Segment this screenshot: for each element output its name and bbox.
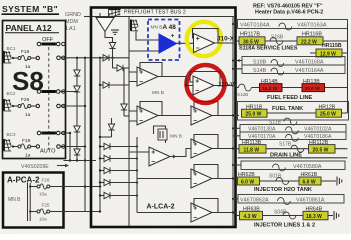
label V46S0209E (21, 164, 69, 170)
wire injector tank row (236, 180, 336, 182)
wire W1 stub (236, 23, 238, 25)
node dot R4 (232, 147, 234, 149)
highlight red circle (187, 65, 225, 103)
op-amp R5 (191, 169, 212, 188)
diode D5 down mid column (99, 118, 115, 138)
cable run W2 (242, 57, 345, 67)
op-amp R3 (191, 106, 212, 125)
wire J10-V output (214, 85, 236, 87)
heater value HR14B alarm (260, 84, 283, 93)
node dot (185, 84, 187, 86)
note REF title (253, 4, 323, 16)
wire R6 output (212, 212, 236, 214)
fuse F19 (12, 138, 40, 159)
riser wire x85 (84, 58, 86, 212)
feedback loop J10-X (193, 29, 219, 44)
fuse F16 (12, 49, 40, 70)
node dot (185, 42, 187, 44)
wire fuel feed row (236, 87, 348, 89)
wire lower input to A48 (129, 50, 159, 52)
switch S8 pole 3 (37, 131, 60, 135)
ground U1 (111, 30, 119, 34)
feedback loop J10-V (190, 72, 220, 86)
wire W2 stub (236, 59, 242, 61)
diode branch inner column (121, 68, 129, 116)
junction wire row below panel (64, 160, 97, 162)
op-amp J10-X driver (194, 34, 215, 53)
wire injector lines row (236, 215, 333, 217)
node dot R3 (232, 114, 234, 116)
diode on riser x77 second (74, 86, 80, 92)
heater value HR13B alarm (302, 84, 325, 93)
diode D3 (113, 58, 130, 71)
op-amp L2 (137, 106, 158, 125)
diode D2 on bus row (103, 55, 109, 61)
slack loop S17B (291, 145, 304, 152)
slack loop S11B (284, 118, 297, 125)
cable run W6 (241, 161, 345, 171)
op-amp L3 (149, 147, 175, 166)
feedback loop R6 (194, 199, 218, 213)
wire fuel tank row (267, 112, 348, 114)
op-amp L1 (137, 67, 158, 86)
wire out pole 3 (60, 132, 70, 134)
heater value HR113B (239, 145, 266, 154)
wire R3 input (159, 115, 191, 117)
contact and wire out row F19 (57, 145, 85, 149)
switch S8 pole 2 (37, 90, 60, 94)
heater value HR64B (303, 211, 328, 220)
feedback loop L1 (140, 63, 162, 77)
feedback loop R3 (194, 102, 218, 116)
feedback loop R5 (194, 165, 218, 179)
slack loop S01B (276, 178, 289, 185)
label PANEL A12 (5, 23, 59, 33)
terminal circles panel edge (62, 42, 65, 148)
heater value HR117B (239, 37, 265, 46)
cable run W4 (240, 125, 346, 134)
diode D6 row (99, 143, 138, 149)
diode D1 down (109, 43, 115, 49)
node dot feed lower (99, 210, 101, 212)
cable run W7 (238, 195, 344, 205)
wire L1 output to J10-V (158, 77, 193, 86)
ground injector tank (337, 177, 342, 186)
wire R3 output (212, 115, 239, 117)
bus line output column (232, 17, 234, 227)
buffer triangle A48 (159, 34, 177, 53)
heater value HR12B (316, 109, 342, 118)
heater value HR116B (297, 37, 323, 46)
highlight yellow circle (187, 22, 221, 56)
wire L3 output to R4 (175, 149, 191, 157)
comb terminal top (109, 9, 121, 17)
module box A-PCA-2 (3, 173, 64, 228)
diode D10 row (99, 192, 138, 198)
dashed module A48 (148, 20, 180, 61)
module box PREFLIGHT TEST BUS 2 (91, 8, 236, 228)
diode on riser x77 lower (74, 149, 80, 155)
heater value HR115B (316, 49, 342, 58)
wire comb to A48 (136, 32, 159, 41)
right bus vertical (347, 24, 349, 113)
switch S8 pole 1 (37, 42, 60, 46)
fuse F28 (29, 178, 63, 197)
wire R5 output (212, 178, 236, 180)
node dot R6 (232, 211, 234, 213)
wire D1 to node row (112, 49, 114, 58)
divider line inner left (128, 17, 130, 227)
transistor Q1 (154, 126, 168, 143)
wire R4 output (212, 148, 236, 150)
wire L2 output (158, 115, 191, 117)
section box FUEL TANK (238, 102, 349, 121)
heater value HR112B (309, 145, 336, 154)
power bus double line (28, 183, 31, 221)
diode D9 row (99, 179, 138, 185)
wire A-PCA-2 feed upper (64, 186, 101, 188)
drain section base line (238, 157, 348, 159)
wire A48 output (177, 42, 194, 44)
op-amp J10-V driver (193, 76, 214, 95)
heater value HR11B (242, 109, 268, 118)
contact and wire out row F16 (57, 56, 96, 60)
op-amp R4 (191, 139, 212, 158)
wire R6 input (137, 212, 191, 214)
wire A-PCA-2 feed lower (64, 211, 101, 213)
wire GRND MDM to preflight box (84, 16, 96, 18)
fuse F26 (12, 97, 40, 118)
node dot feed upper (99, 185, 101, 187)
wire J10-X output (215, 42, 237, 44)
wire service row 1 (236, 40, 348, 42)
contact and wire out row F26 (57, 104, 85, 108)
riser wire x70 (69, 133, 71, 161)
feedback loop L2 (140, 102, 162, 116)
node dots bus row (99, 57, 101, 59)
cable run W3 (242, 65, 345, 75)
feedback loop R4 (194, 135, 218, 149)
wire drain row (236, 148, 348, 150)
op-amp R6 (191, 203, 212, 222)
slack loop S12B (237, 84, 251, 97)
heater value HR62B (238, 177, 260, 186)
op-amp U1 input buffer (96, 13, 114, 32)
panel box PANEL A12 (3, 21, 66, 159)
diode on riser x77 upper (74, 70, 80, 76)
wire HR115B (310, 52, 348, 54)
wire L1 inputs (129, 72, 137, 82)
junction dots (69, 159, 71, 161)
comb terminal C1 (131, 20, 138, 31)
switch gang dashed link (48, 47, 50, 150)
left bus vertical (99, 58, 101, 212)
divider line under title (92, 16, 234, 18)
wire bus row to inner (96, 57, 129, 59)
diode D8 row (99, 167, 138, 173)
riser wire x77 (76, 58, 78, 161)
wire R5 input (137, 137, 191, 213)
fuse F25 (29, 203, 63, 222)
heater value HR63B (240, 211, 263, 220)
wire U1 output (105, 32, 113, 43)
diode D4 (99, 82, 129, 88)
scan noise overlay (0, 0, 1, 1)
cable run W1 (238, 20, 348, 30)
slack loop service row (270, 38, 283, 45)
diode on riser x77 mid (74, 126, 80, 132)
cable run W5 (240, 132, 346, 141)
wire stubs bus to cable rows (234, 24, 243, 199)
heater value HR61B (299, 177, 321, 186)
wire L3 input (129, 151, 149, 153)
diode D7 row (99, 155, 138, 161)
wire out pole 2 (60, 91, 77, 93)
slack loop S04B (283, 212, 296, 219)
node dots on bus (232, 23, 234, 200)
wire L2 inputs (129, 111, 137, 121)
title SYSTEM "B" (2, 4, 60, 14)
node dot R5 (232, 177, 234, 179)
node GRND MDM LA1 (65, 12, 81, 32)
ground injector lines (334, 211, 339, 220)
